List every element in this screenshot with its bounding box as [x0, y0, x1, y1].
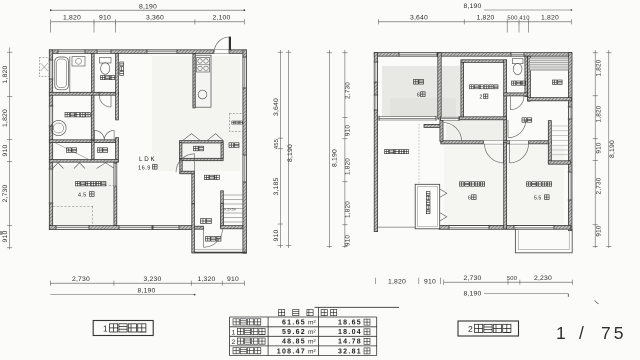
- caption box 1F plan: [93, 321, 153, 336]
- 2F bedroom left window b: [374, 95, 379, 110]
- 1F bath partition line: [69, 57, 71, 93]
- svg-text:2,730: 2,730: [72, 276, 90, 283]
- 1F toilet bottom wall: [99, 92, 119, 95]
- 2F right inner dim line: [594, 50, 596, 248]
- svg-text:9.5X50: 9.5X50: [224, 208, 236, 212]
- svg-text:1,820: 1,820: [596, 105, 603, 122]
- 1F top sub dim line: [51, 21, 245, 23]
- 1F back-door opening: [214, 50, 229, 54]
- 1F left exterior wall: [49, 50, 52, 230]
- 2F WIC east wall: [504, 60, 507, 142]
- 2F bottom exterior wall: [439, 225, 571, 229]
- svg-text:3,185: 3,185: [273, 177, 280, 195]
- 1F hall closet bifold doors: [183, 134, 223, 141]
- svg-text:18.65: 18.65: [338, 320, 362, 327]
- svg-text:18.04: 18.04: [338, 329, 362, 336]
- svg-text:3,230: 3,230: [143, 276, 161, 283]
- svg-text:/: /: [579, 323, 584, 343]
- 1F oshiire diagonal: [53, 142, 92, 161]
- 1F top exterior wall: [49, 50, 246, 54]
- room label hall: [205, 175, 220, 179]
- 2F stairwell west wall: [548, 121, 551, 164]
- 1F back door arc: [214, 37, 229, 52]
- 2F closet bifold triangles: [440, 189, 447, 221]
- svg-text:2,100: 2,100: [212, 15, 230, 22]
- 1F genkan west wall upper: [192, 174, 195, 206]
- 1F right outer dim line: [288, 50, 290, 248]
- 1F bottom exterior wall: [49, 226, 193, 230]
- 2F child room2 door arc: [485, 144, 504, 163]
- room label toilet 2F: [512, 81, 526, 85]
- 1F bottom sub dim line: [50, 282, 244, 284]
- 1F tatami east sliding door: [114, 164, 117, 187]
- 2F lower-roof outline: [515, 229, 572, 253]
- 1F washing machine: [72, 57, 85, 67]
- 1F kitchen top window: [147, 49, 177, 54]
- 1F hall closet left wall: [180, 143, 182, 159]
- 1F bottom total dim line 8190: [50, 294, 194, 296]
- 2F WIC top wall: [461, 60, 507, 63]
- room label genkan: [201, 219, 212, 224]
- 1F toilet east wall / hall wall upper: [116, 53, 119, 120]
- 1F toilet top window: [97, 49, 111, 54]
- 2F toilet east wall: [525, 56, 528, 96]
- svg-text:2,730: 2,730: [2, 184, 9, 202]
- 1F tatami east wall: [114, 162, 117, 225]
- 1F LDK east window b: [242, 155, 247, 182]
- 2F bottom total dim line 8190: [484, 293, 568, 295]
- 1F bath-toilet divider wall: [92, 53, 95, 95]
- 1F bathtub: [55, 57, 69, 90]
- svg-text:1: 1: [103, 324, 108, 334]
- 2F balcony divider dotted: [418, 124, 420, 184]
- 1F entrance door arc: [204, 228, 223, 247]
- 2F bedroom east wall: [438, 53, 441, 120]
- 2F toilet fixture: [513, 59, 524, 64]
- 2F left exterior wall: [374, 53, 377, 232]
- svg-text:5.5: 5.5: [534, 196, 541, 202]
- 1F genkan west wall lower: [192, 204, 195, 254]
- svg-text:2: 2: [468, 324, 473, 334]
- svg-text:1,820: 1,820: [2, 109, 9, 127]
- caption box 2F plan: [458, 321, 519, 336]
- svg-text:61.65: 61.65: [282, 320, 306, 327]
- svg-text:2: 2: [480, 95, 483, 101]
- table row label 3: [237, 338, 265, 344]
- 1F kitchen counter: [195, 55, 211, 107]
- 1F storage east wall: [116, 138, 119, 162]
- 1F bath bottom wall: [49, 92, 102, 95]
- room label mono-ire: [229, 143, 239, 148]
- 1F oshiire-storage divider: [92, 141, 95, 163]
- 1F stair treads: [223, 195, 243, 222]
- table horizontal lines: [230, 316, 377, 318]
- svg-text:910: 910: [345, 125, 352, 137]
- 2F bedroom left window a: [374, 62, 379, 82]
- svg-text:1,820: 1,820: [388, 279, 406, 286]
- room label balcony: [385, 150, 409, 154]
- room label porch: [206, 237, 222, 242]
- 2F stair window: [568, 107, 573, 119]
- svg-text:8,190: 8,190: [287, 144, 294, 162]
- 2F left inner dim line: [344, 50, 346, 248]
- svg-text:3,640: 3,640: [273, 98, 280, 116]
- 1F toilet door arc: [99, 95, 111, 107]
- 1F porch slab: [194, 252, 246, 254]
- svg-text:1,820: 1,820: [345, 201, 352, 218]
- 1F water heater dashed box: [40, 58, 50, 77]
- svg-text:3,360: 3,360: [146, 15, 164, 22]
- svg-text:14.78: 14.78: [338, 339, 362, 346]
- 1F washroom bottom wall: [49, 140, 118, 143]
- svg-text:3,640: 3,640: [410, 15, 428, 22]
- 2F WIC door arc: [508, 120, 526, 138]
- room label kodomo-beya 2: [460, 182, 485, 186]
- 1F hall jog wall: [180, 171, 195, 174]
- svg-text:8,190: 8,190: [609, 140, 616, 158]
- 1F stair-genkan wall: [221, 204, 224, 229]
- 1F genkan step wall: [194, 226, 203, 229]
- 2F child room2 south window: [449, 225, 489, 230]
- table row label 4: [233, 348, 261, 354]
- svg-text:910: 910: [345, 235, 352, 247]
- 2F WIC west wall: [461, 60, 464, 120]
- svg-text:1: 1: [556, 323, 566, 343]
- svg-text:910: 910: [596, 225, 603, 237]
- 2F study bottom wall: [528, 98, 572, 101]
- svg-text:8,190: 8,190: [139, 3, 157, 10]
- svg-text:8,190: 8,190: [463, 3, 481, 10]
- table vertical lines: [229, 317, 231, 356]
- 1F right inner dim line: [279, 50, 281, 248]
- 1F left window a: [49, 60, 54, 79]
- 1F stair west wall: [221, 191, 224, 228]
- 2F bedroom balcony sliding door: [379, 116, 436, 121]
- 2F corridor south wall: [441, 141, 552, 144]
- 2F right exterior wall: [568, 53, 572, 231]
- 1F wall under stairs south: [221, 226, 243, 229]
- svg-text:16.9: 16.9: [138, 166, 151, 172]
- 2F child room1 door arc: [510, 144, 529, 163]
- 1F kitchen sink: [198, 90, 207, 99]
- 2F bedroom entry jog wall h: [424, 124, 440, 127]
- room label shuunou 2: [98, 148, 108, 153]
- room label toilet 1F: [101, 76, 115, 80]
- svg-text:1,320: 1,320: [197, 276, 215, 283]
- 2F corridor door opening room2: [484, 141, 504, 144]
- 1F vanity basin: [51, 120, 66, 135]
- 1F LDK east window a: [242, 57, 247, 88]
- svg-text:455: 455: [274, 139, 280, 149]
- edge mark: [0, 231, 3, 235]
- svg-text:1,820: 1,820: [541, 15, 559, 22]
- 2F bottom left dim segment: [375, 278, 377, 284]
- 2F toilet top window: [511, 52, 524, 57]
- 2F toilet door arc: [510, 96, 524, 110]
- 1F tatami fusuma door triangles: [53, 163, 115, 169]
- 2F bedroom top window: [399, 52, 437, 57]
- 1F stove: [197, 58, 210, 73]
- 2F study west wall: [528, 56, 531, 101]
- 1F left dim line: [9, 48, 11, 250]
- room label shinshitsu (bedroom): [414, 80, 424, 85]
- 1F LDK south window a: [119, 225, 152, 230]
- 1F washroom double door arcs: [95, 130, 115, 140]
- 2F bottom sub dim line: [444, 281, 573, 283]
- 2F bedroom door arc: [443, 123, 462, 142]
- svg-text:2,730: 2,730: [596, 177, 603, 194]
- scan shading tints: [382, 66, 460, 118]
- 2F study annotation block: [530, 58, 569, 71]
- 2F WIC-corridor wall: [460, 117, 507, 120]
- svg-text:500: 500: [507, 276, 517, 282]
- svg-text:8,190: 8,190: [137, 288, 155, 295]
- 2F top exterior wall: [374, 53, 572, 57]
- svg-text:500: 500: [507, 16, 517, 22]
- 2F stairwell bottom wall: [548, 161, 570, 164]
- svg-text:910: 910: [227, 276, 239, 283]
- 1F bath top window: [58, 49, 85, 54]
- 1F refrigerator dashed box: [230, 114, 244, 132]
- 1F toilet fixture: [100, 58, 112, 64]
- room label senmen-datsui: [65, 113, 90, 117]
- svg-text:910: 910: [2, 231, 9, 243]
- room label walk-in-closet: [470, 85, 499, 89]
- svg-text:1,820: 1,820: [2, 65, 9, 83]
- svg-text:59.62: 59.62: [282, 329, 306, 336]
- 2F stair treads: [551, 126, 568, 155]
- 1F LDK south window b: [153, 225, 179, 230]
- 1F back door leaf: [229, 37, 231, 51]
- table row label 1: [233, 319, 261, 325]
- label piano (vertical): [120, 62, 124, 75]
- table header overline: [315, 306, 400, 308]
- 1F hall closet top wall: [180, 141, 224, 143]
- 1F LDK-hall wall: [180, 160, 182, 173]
- svg-text:m²: m²: [308, 348, 316, 355]
- svg-text:1,820: 1,820: [345, 158, 352, 175]
- svg-text:m²: m²: [308, 339, 316, 346]
- svg-text:48.85: 48.85: [282, 339, 306, 346]
- svg-text:6: 6: [468, 196, 471, 202]
- room label shosai (study): [553, 80, 563, 84]
- svg-text:910: 910: [2, 145, 9, 157]
- 1F tatami south window: [56, 225, 89, 230]
- 2F children divider wall: [504, 143, 507, 230]
- 1F LDK door arc: [176, 154, 195, 173]
- 1F tatami north wall: [49, 160, 118, 163]
- 2F toilet bottom wall: [504, 93, 528, 96]
- 2F child room1 south window: [514, 225, 554, 230]
- svg-text:2: 2: [232, 339, 236, 346]
- svg-text:m²: m²: [308, 320, 316, 327]
- room label kodomo-beya 1: [527, 182, 552, 186]
- label closet (vertical): [426, 192, 430, 214]
- svg-text:910: 910: [596, 142, 603, 154]
- 1F tatami dashed line short: [105, 185, 114, 187]
- 1F hall closet right wall: [221, 143, 223, 159]
- room label oshiire: [67, 148, 77, 153]
- 1F kitchen partition wall: [193, 53, 195, 108]
- svg-text:8,190: 8,190: [463, 290, 481, 297]
- svg-text:2,730: 2,730: [345, 82, 352, 99]
- svg-text:32.81: 32.81: [338, 348, 362, 355]
- room label rouka (corridor): [522, 118, 532, 122]
- 2F child room1 east window: [568, 172, 573, 200]
- 2F bedroom entry jog wall v: [440, 120, 443, 141]
- 2F top total dim line 8190: [484, 9, 571, 11]
- 1F veranda dashed line v: [92, 206, 94, 225]
- 1F veranda dashed line h: [53, 205, 93, 207]
- svg-text:410: 410: [519, 16, 529, 22]
- svg-text:1: 1: [232, 329, 236, 336]
- 2F top sub dim line: [378, 21, 571, 23]
- 1F top total dim line 8190: [51, 9, 245, 11]
- svg-text:108.47: 108.47: [277, 348, 306, 355]
- room label shuunou (hall closet): [194, 146, 204, 151]
- stray mark: [595, 301, 599, 305]
- 1F left window c: [49, 169, 54, 203]
- svg-text:2,230: 2,230: [534, 275, 552, 282]
- room label washitsu (ookabe): [76, 182, 106, 186]
- table header kenbutsu-menseki: [279, 310, 328, 316]
- svg-text:910: 910: [424, 279, 436, 286]
- 1F right exterior wall: [243, 50, 247, 254]
- 2F corridor nook south window: [441, 116, 460, 121]
- 1F hall closet bottom wall: [180, 158, 224, 160]
- 2F balcony south edge: [378, 226, 416, 228]
- table row label 2: [237, 328, 265, 334]
- svg-text:m²: m²: [308, 329, 316, 336]
- label refrigerator: [232, 121, 242, 124]
- svg-text:75: 75: [601, 323, 626, 343]
- svg-text:2,730: 2,730: [463, 275, 481, 282]
- svg-text:8,190: 8,190: [332, 149, 339, 167]
- svg-text:1,820: 1,820: [476, 15, 494, 22]
- 2F corridor door opening room1: [510, 141, 529, 144]
- svg-text:1,820: 1,820: [63, 15, 81, 22]
- svg-text:LDK: LDK: [139, 156, 156, 163]
- svg-text:1,820: 1,820: [596, 59, 603, 76]
- svg-text:6: 6: [417, 93, 420, 99]
- 1F left window b: [49, 106, 54, 126]
- svg-text:4.5: 4.5: [78, 193, 87, 199]
- 2F closet box: [415, 184, 440, 229]
- 2F right outer dim line: [608, 50, 610, 248]
- svg-text:910: 910: [99, 15, 111, 22]
- svg-text:910: 910: [273, 230, 280, 242]
- 2F left outer dim line: [328, 50, 330, 248]
- 1F washroom east wall: [91, 95, 94, 141]
